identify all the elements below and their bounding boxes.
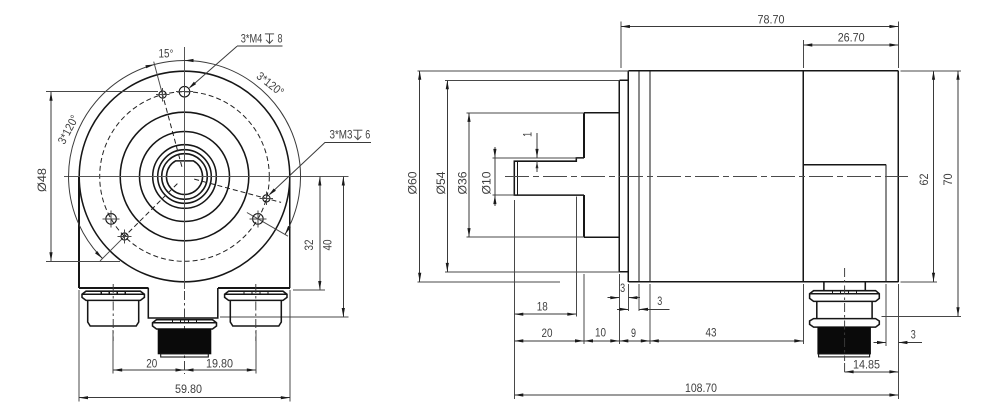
front view: radial dashed line to M3 hole at -15deg xyxy=(163,94,182,166)
front view: M4 hole lower right xyxy=(253,214,264,225)
side view: 78.70 dimension line xyxy=(621,26,899,28)
side view: front plate top edge xyxy=(619,79,628,81)
front view: Ø48 top extension line xyxy=(46,91,158,93)
side view: extension at body face xyxy=(618,274,620,344)
front view: shaft bore D-profile (Ø10 with flat) xyxy=(167,161,203,195)
side view: connector black mating end xyxy=(818,327,871,354)
side view: front plate face (Ø54) xyxy=(618,80,620,272)
side view: 3 dimension (first) xyxy=(608,297,620,299)
side view: 43 dimension xyxy=(650,340,804,342)
side view: 70 dimension extension lines xyxy=(901,70,962,72)
front view: 19.80 dimension line xyxy=(185,369,256,371)
front view: central boss notch xyxy=(148,288,218,318)
side view: connector mid barrel xyxy=(817,301,872,318)
side view: body top edge xyxy=(628,70,898,72)
side view: horizontal centerline dash-dot xyxy=(505,176,908,178)
svg-text:1: 1 xyxy=(521,132,535,137)
svg-text:70: 70 xyxy=(941,173,955,185)
svg-text:9: 9 xyxy=(631,326,636,340)
front view: leader 3*M4 depth 8 xyxy=(190,46,237,87)
side view: extension at 639 xyxy=(638,284,640,311)
front view: right connector centerline xyxy=(255,284,257,341)
side view: connector tip xyxy=(819,354,870,357)
svg-text:15°: 15° xyxy=(159,46,174,60)
svg-text:108.70: 108.70 xyxy=(685,381,717,395)
front view: radial extension line -15deg (for 15 deg dim) xyxy=(154,62,163,95)
side view: 20 dimension xyxy=(514,340,584,342)
front view: radial dashed line to M3 hole at 105deg xyxy=(194,179,281,202)
front view: vertical centerline xyxy=(184,47,186,289)
front view: right connector coupling ring xyxy=(225,291,287,300)
svg-text:3*M3: 3*M3 xyxy=(330,128,353,142)
svg-text:26.70: 26.70 xyxy=(838,31,865,45)
side view: shaft chamfer line xyxy=(517,161,519,195)
side view: 62 dimension extension lines xyxy=(901,70,938,72)
side view: extension line at flange face xyxy=(583,274,585,344)
svg-text:43: 43 xyxy=(706,326,717,340)
front view: Ø48 dimension line xyxy=(50,92,52,262)
front view: left connector coupling ring xyxy=(82,291,144,300)
front view: arc arrowhead at -15deg xyxy=(145,65,154,69)
front view: M3 hole upper left xyxy=(159,91,166,98)
side view: connector neck xyxy=(824,282,865,291)
side view: 18 dimension xyxy=(514,313,576,315)
svg-text:20: 20 xyxy=(146,356,157,370)
front view: radial extension line 120deg (for 3*120 dim) xyxy=(247,213,288,237)
side view: 26.70 extension line xyxy=(802,40,804,68)
side view: connector cavity top edge xyxy=(803,164,886,166)
front view: bearing boss circle xyxy=(140,132,230,222)
svg-text:3: 3 xyxy=(657,294,662,308)
side view: connector lower ring xyxy=(810,319,880,328)
side view: rear flange boundary xyxy=(802,71,804,282)
side view: connector centerline xyxy=(844,268,846,361)
front view: 59.80 extension lines xyxy=(78,290,80,402)
front view: radial dashed line to M3 hole at 225deg xyxy=(124,184,177,237)
side view: front boss face (Ø36) xyxy=(583,113,585,158)
svg-text:Ø60: Ø60 xyxy=(406,171,420,194)
side view: 108.70 dimension xyxy=(514,394,898,396)
front view: M4 hole top xyxy=(179,86,190,97)
front view: collar ring inner xyxy=(162,154,208,200)
front view: 40 dimension line xyxy=(342,177,344,318)
front view: collar ring middle xyxy=(158,150,212,204)
front view: extension line left connector centerline xyxy=(112,330,114,374)
side view: front plate bottom edge xyxy=(619,271,628,273)
front view: M3 hole lower left xyxy=(121,233,128,240)
front view: right connector barrel xyxy=(230,300,281,326)
front view: 32 dimension line xyxy=(319,177,321,291)
svg-text:78.70: 78.70 xyxy=(758,13,785,27)
front view: vertical centerline lower dash-dot xyxy=(184,291,186,374)
front view: collar ring outer xyxy=(153,145,217,209)
side view: 3 dimension (second) xyxy=(617,308,628,310)
side view: 14.85 dimension xyxy=(844,363,846,375)
svg-text:20: 20 xyxy=(542,326,553,340)
side view: Ø36 dimension xyxy=(467,112,584,114)
front view: central connector black barrel xyxy=(158,329,211,354)
side view: 10 dimension xyxy=(584,340,619,342)
svg-text:8: 8 xyxy=(278,31,283,45)
side view: connector cavity right edge xyxy=(885,165,887,282)
front view: M4 hole lower left xyxy=(106,214,117,225)
front view: boss circle xyxy=(120,112,249,241)
svg-text:3: 3 xyxy=(911,328,916,342)
side view: keyway depth 1 dimension xyxy=(536,133,538,158)
side view: 9 dimension xyxy=(619,340,650,342)
front view: extension line right connector centerline xyxy=(255,330,257,374)
side view: extension at rear flange xyxy=(802,284,804,344)
front view: 40 bottom extension xyxy=(220,316,349,318)
svg-text:3: 3 xyxy=(620,281,625,295)
side view: connector coupling ring xyxy=(810,291,880,302)
svg-text:3*M4: 3*M4 xyxy=(241,31,263,45)
front view: angular dimension arc (15deg and 3*120deg) xyxy=(69,60,301,258)
svg-text:Ø10: Ø10 xyxy=(480,171,494,194)
side view: 70 dimension line xyxy=(957,71,959,316)
side view: 26.70 dimension line xyxy=(803,44,898,46)
front view: M3 hole right xyxy=(263,195,270,202)
front view: square flange right edge xyxy=(289,177,291,288)
front view: central connector coupling ring xyxy=(153,320,217,329)
side view: shaft outline (Ø10 with keyway flat) xyxy=(514,158,584,195)
svg-text:Ø36: Ø36 xyxy=(456,171,470,194)
svg-text:6: 6 xyxy=(365,128,370,142)
front view: horizontal centerline xyxy=(64,176,349,178)
front view: leader 3*M3 depth 6 xyxy=(270,142,325,194)
side view: front boss bottom edge xyxy=(584,236,619,238)
side view: 78.70 extension lines xyxy=(620,22,622,69)
side view: front boss top edge xyxy=(584,112,619,114)
svg-text:19.80: 19.80 xyxy=(206,356,233,370)
front view: 20 dimension line xyxy=(113,369,184,371)
front view: flange bottom edge right part xyxy=(218,287,290,289)
front view: square flange left edge xyxy=(78,177,80,288)
front view: central connector tip xyxy=(161,354,209,357)
svg-text:14.85: 14.85 xyxy=(853,358,880,372)
front view: left connector barrel xyxy=(88,300,139,326)
front view: arc arrowhead at 225deg xyxy=(95,251,103,259)
front view: Ø48 bottom extension line xyxy=(46,260,120,262)
svg-text:40: 40 xyxy=(321,239,335,250)
front view: flange bottom edge left part xyxy=(79,287,148,289)
svg-text:10: 10 xyxy=(595,326,606,340)
side view: body bottom edge xyxy=(628,281,898,283)
svg-text:Ø48: Ø48 xyxy=(35,168,49,192)
front view: bolt circle Ø48 (dashed) xyxy=(100,92,270,262)
side view: 3 dimension (right) xyxy=(885,284,887,346)
svg-text:32: 32 xyxy=(302,240,316,251)
svg-text:62: 62 xyxy=(917,174,931,186)
front view: arc arrowhead at 0deg xyxy=(185,59,194,62)
side view: 62 dimension line xyxy=(933,71,935,282)
side view: extension at 649.5 xyxy=(649,284,651,344)
front view: radial extension line 225deg (for 3*120 dim) xyxy=(100,237,124,261)
svg-text:59.80: 59.80 xyxy=(175,382,202,396)
side view: internal vertical line at 9mm xyxy=(649,71,651,282)
front view: encoder body outer circle (Ø60) xyxy=(79,71,290,282)
front view: 32 bottom extension xyxy=(293,289,325,291)
side view: Ø60 dimension xyxy=(417,70,628,72)
side view: body front face xyxy=(627,71,629,282)
side view: Ø10 dimension (outside arrows) xyxy=(493,157,577,159)
svg-text:Ø54: Ø54 xyxy=(434,171,448,194)
svg-text:18: 18 xyxy=(537,300,548,314)
front view: 59.80 dimension line xyxy=(79,397,290,399)
side view: keyway end vertical extension xyxy=(575,197,577,317)
front view: left connector centerline xyxy=(112,284,114,341)
front view: arc arrowhead at 120deg xyxy=(285,226,291,235)
side view: extension line at shaft end xyxy=(513,200,515,399)
side view: internal vertical line front plate 2 xyxy=(638,71,640,282)
side view: extension at 628.4 xyxy=(627,284,629,311)
side view: body right edge xyxy=(897,71,899,282)
side view: Ø54 dimension xyxy=(445,79,619,81)
